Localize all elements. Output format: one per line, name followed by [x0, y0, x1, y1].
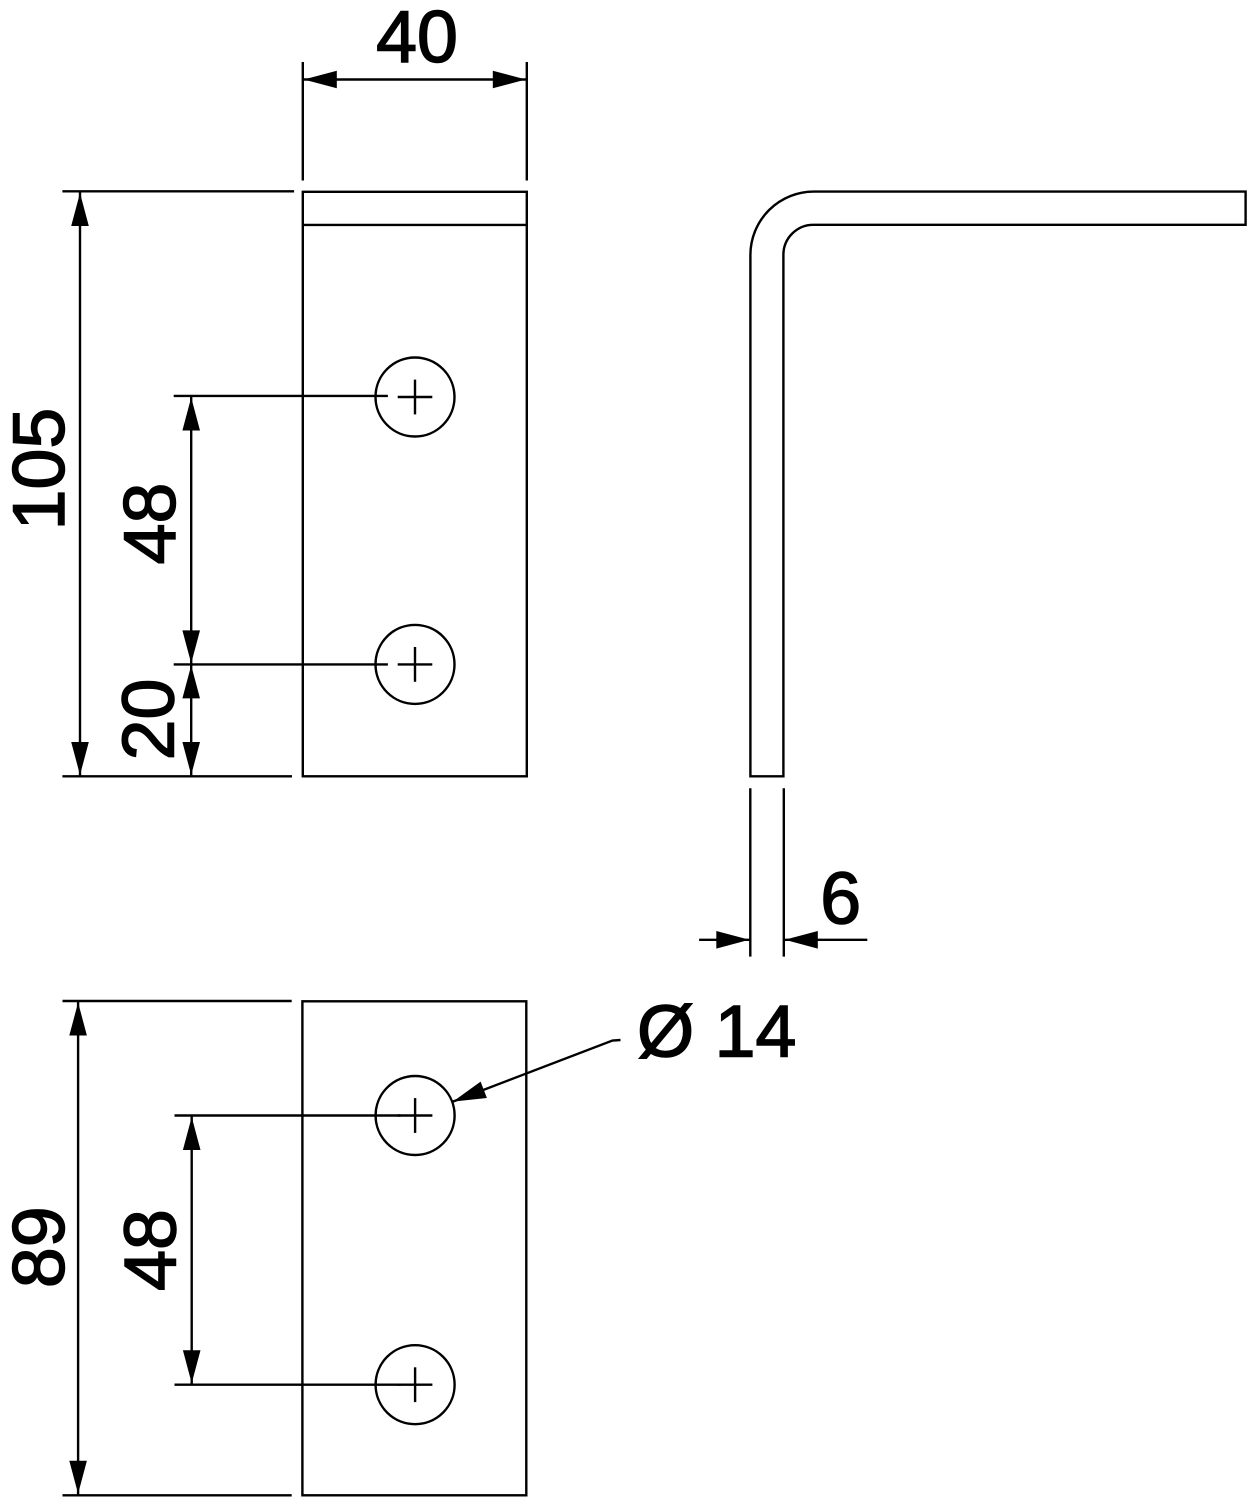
dim 40 dimension line — [303, 78, 527, 80]
dim 48 upper extension line (bottom view, to hole H3) — [175, 1114, 401, 1116]
dim 40 left extension line — [302, 62, 304, 181]
hole H2 circle (front view bottom hole) — [376, 625, 455, 704]
dim 48 dimension line (bottom view) — [190, 1116, 192, 1384]
leader line for hole diameter callout — [453, 1040, 621, 1102]
dim 40 left arrowhead — [304, 71, 337, 89]
hole H1 circle (front view top hole) — [376, 358, 455, 437]
dim 89 dimension line — [77, 1002, 79, 1495]
dim 89 top arrowhead — [69, 1003, 87, 1036]
dim 48 bottom arrowhead (bottom view) — [183, 1350, 201, 1383]
dim 48 dimension line (front view) — [190, 397, 192, 665]
dim 105 bottom extension line — [62, 775, 292, 777]
dim 89 bottom arrowhead — [69, 1461, 87, 1494]
dim 6 right arrowhead (pointing left) — [785, 931, 818, 949]
dim 20 top arrowhead — [182, 665, 200, 698]
svg-text:105: 105 — [0, 408, 80, 531]
dim 6 left arrowhead (pointing right) — [716, 931, 749, 949]
dim 48 bottom arrowhead (front view) — [182, 630, 200, 663]
dim 6 dimension line left part — [699, 939, 750, 941]
hole H3 circle (bottom view top hole) — [376, 1076, 455, 1155]
hole H1 centermark vertical — [414, 380, 416, 415]
dim 6 left extension line — [749, 788, 751, 956]
svg-text:48: 48 — [108, 483, 191, 565]
svg-text:Ø 14: Ø 14 — [637, 990, 796, 1073]
dim 48 lower extension line (bottom view, to hole H4) — [175, 1383, 401, 1385]
svg-text:20: 20 — [107, 679, 190, 761]
svg-text:89: 89 — [0, 1206, 80, 1288]
dim 105 top arrowhead — [71, 193, 89, 226]
dim 48 upper extension line (front view, to hole H1) — [174, 395, 388, 397]
dim 48 top arrowhead (front view) — [182, 398, 200, 431]
dim 105 dimension line — [79, 192, 81, 776]
hole H2 centermark horizontal — [398, 663, 433, 665]
hole H3 centermark horizontal — [398, 1114, 433, 1116]
dim 48 top arrowhead (bottom view) — [183, 1117, 201, 1150]
dim 89 top extension line — [63, 1000, 292, 1002]
front view plate outline (105 x 40 leg) — [303, 192, 527, 777]
leader arrowhead (pointing to hole H3 rim) — [453, 1082, 487, 1102]
bottom view plate outline (89 x 40 leg) — [302, 1001, 526, 1495]
dim 105 top extension line — [62, 190, 294, 192]
dim 20 bottom arrowhead — [182, 742, 200, 775]
svg-text:40: 40 — [376, 0, 458, 78]
bend tangent line on front view — [303, 224, 527, 226]
svg-text:6: 6 — [820, 856, 861, 939]
dim 20 dimension line (front view) — [190, 664, 192, 776]
svg-text:48: 48 — [109, 1209, 192, 1291]
hole H3 centermark vertical — [414, 1098, 416, 1133]
dim 40 right extension line — [526, 62, 528, 181]
hole H4 circle (bottom view bottom hole) — [376, 1345, 455, 1424]
dim 48 lower extension line (front view, to hole H2) — [174, 663, 388, 665]
dim 105 bottom arrowhead — [71, 742, 89, 775]
hole H4 centermark vertical — [414, 1367, 416, 1402]
dim 6 right extension line — [783, 788, 785, 956]
hole H1 centermark horizontal — [398, 396, 433, 398]
dim 40 right arrowhead — [493, 71, 526, 89]
side view L-profile outline — [750, 192, 1245, 777]
hole H4 centermark horizontal — [398, 1383, 433, 1385]
dim 89 bottom extension line — [63, 1494, 292, 1496]
dim 6 dimension line right part — [784, 939, 868, 941]
hole H2 centermark vertical — [414, 647, 416, 682]
